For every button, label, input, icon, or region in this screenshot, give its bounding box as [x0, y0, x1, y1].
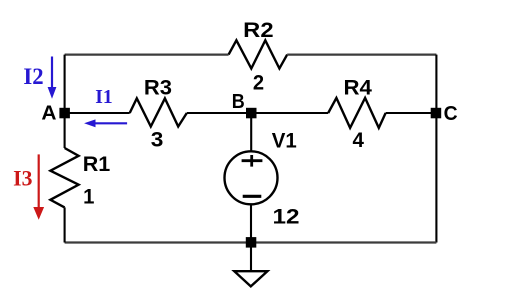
bottom junction dot — [246, 237, 256, 248]
wire from R1 to bottom-left corner — [64, 207, 66, 242]
svg-text:A: A — [41, 102, 56, 125]
svg-text:I1: I1 — [95, 86, 112, 108]
node A junction dot — [59, 108, 70, 119]
resistor R1 — [50, 148, 78, 207]
voltage source V1 circle — [225, 151, 278, 204]
svg-text:4: 4 — [353, 129, 365, 152]
wire node B down to V1 — [250, 113, 252, 151]
node B junction dot — [246, 108, 257, 119]
svg-text:R2: R2 — [243, 19, 273, 42]
wire R3 to node B to R4 — [187, 112, 328, 114]
resistor R2 — [229, 40, 288, 68]
wire bottom junction to ground — [250, 243, 252, 272]
svg-text:3: 3 — [151, 129, 164, 152]
ground — [234, 271, 267, 286]
svg-text:B: B — [232, 90, 245, 113]
wire R4 to node C — [386, 112, 437, 114]
svg-text:1: 1 — [83, 185, 95, 208]
V1 plus sign — [242, 155, 263, 167]
svg-text:12: 12 — [273, 206, 300, 229]
resistor R3 — [130, 98, 187, 126]
current arrow I2 — [51, 57, 53, 89]
wire V1 to bottom junction — [250, 205, 252, 243]
wire left vertical from top corner through node A to R1 — [64, 55, 66, 148]
svg-text:C: C — [444, 102, 458, 125]
svg-text:R3: R3 — [144, 77, 172, 100]
svg-text:R4: R4 — [344, 76, 373, 99]
svg-text:I2: I2 — [23, 64, 43, 89]
current arrow I1 — [94, 122, 127, 124]
wire right vertical through node C — [435, 55, 437, 243]
wire node A to R3 — [65, 112, 130, 114]
wire bottom horizontal — [65, 241, 437, 243]
wire top-right from R2 to node C riser — [287, 53, 436, 55]
node C junction dot — [431, 108, 442, 119]
svg-text:R1: R1 — [83, 153, 111, 176]
V1 minus sign — [243, 195, 262, 198]
resistor R4 — [328, 98, 385, 128]
wire top-left from node A riser to R2 — [65, 53, 229, 55]
current arrow I3 — [38, 154, 40, 207]
svg-text:I3: I3 — [13, 166, 32, 191]
svg-text:2: 2 — [253, 71, 264, 94]
svg-text:V1: V1 — [272, 129, 297, 152]
